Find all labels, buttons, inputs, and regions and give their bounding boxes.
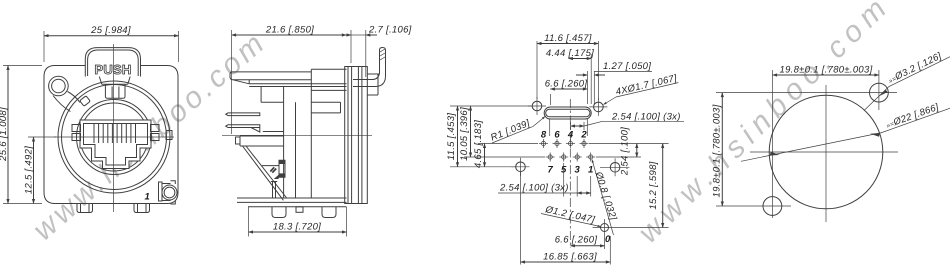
dim 6.6 bottom — [555, 235, 605, 246]
svg-text:6.6 [.260]: 6.6 [.260] — [545, 79, 588, 90]
svg-text:10.05 [.396]: 10.05 [.396] — [459, 107, 470, 161]
latch tab left — [72, 125, 81, 132]
body ring 4 — [80, 103, 148, 171]
vertical ext top-right circle — [878, 70, 880, 110]
horizontal centerline through small top-right circle — [716, 92, 897, 94]
dim 2.54 top right — [571, 112, 685, 131]
key bump — [80, 96, 91, 106]
svg-text:2.54 [.100]: 2.54 [.100] — [620, 127, 631, 176]
foot left — [77, 204, 93, 213]
dim 11.6 — [537, 33, 598, 100]
svg-text:12.5 [.492]: 12.5 [.492] — [24, 146, 35, 194]
svg-text:1: 1 — [145, 192, 150, 203]
dim 2.7 top — [340, 25, 412, 78]
dim 25 top — [44, 25, 179, 62]
svg-text:2.54 [.100] (3x): 2.54 [.100] (3x) — [611, 112, 681, 123]
svg-text:4.65 [.183]: 4.65 [.183] — [473, 120, 484, 168]
svg-text:6.6 [.260]: 6.6 [.260] — [555, 235, 598, 246]
body ring 3 — [77, 100, 152, 175]
dim 2.54 right vertical — [589, 127, 669, 176]
dim 19.8 left — [712, 93, 723, 206]
svg-text:4.44 [.175]: 4.44 [.175] — [546, 48, 594, 59]
label 4xO1.7 — [604, 73, 679, 105]
svg-text:6: 6 — [554, 130, 560, 141]
foot right — [322, 207, 336, 218]
dim 1.27 — [576, 61, 652, 104]
svg-text:18.3 [.720]: 18.3 [.720] — [273, 222, 321, 233]
latch tab right — [151, 125, 160, 132]
centerline vertical — [113, 44, 115, 212]
svg-text:R1 [.039]: R1 [.039] — [489, 118, 531, 144]
hole top-right — [589, 98, 607, 116]
O22 leader diagonal — [741, 98, 950, 161]
mounting hole top-left — [52, 79, 66, 93]
svg-text:1.27 [.050]: 1.27 [.050] — [603, 61, 651, 72]
svg-text:1: 1 — [588, 165, 593, 176]
main vertical edge — [283, 87, 285, 199]
big circle O22 — [769, 95, 883, 209]
push tab neck — [99, 77, 130, 85]
wedge diagonal — [243, 146, 284, 200]
slot side stubs — [549, 119, 551, 136]
svg-text:2.7 [.106]: 2.7 [.106] — [368, 25, 412, 36]
pin numbers bottom 7531 — [548, 165, 594, 176]
big circle centerlines — [825, 85, 827, 222]
watermark 1 — [27, 25, 274, 248]
svg-text:16.85 [.663]: 16.85 [.663] — [543, 252, 597, 263]
label R1 — [488, 117, 545, 144]
pin numbers top 8642 — [541, 130, 588, 141]
label O0.8 — [592, 160, 619, 236]
svg-text:»=Ø3.2 [.126]: »=Ø3.2 [.126] — [886, 51, 943, 86]
svg-text:19.8±0.1 [.780±.003]: 19.8±0.1 [.780±.003] — [712, 104, 723, 197]
push tab inner — [88, 50, 139, 76]
small circle top-right — [870, 83, 889, 102]
centerline — [222, 134, 372, 136]
dim 2.54 bottom left — [498, 163, 591, 197]
lobe arm top-left — [53, 92, 80, 112]
foot right — [134, 204, 150, 213]
pins top row — [539, 139, 589, 148]
dim 12.5 left — [24, 137, 57, 204]
front stub on axis — [236, 136, 284, 146]
svg-text:4: 4 — [567, 130, 574, 141]
pcb legs down — [271, 182, 277, 198]
hole bottom (1.2) — [601, 219, 609, 249]
slot outer — [544, 107, 591, 119]
body circle outer — [58, 81, 170, 193]
mounting bracket bottom-right — [159, 182, 163, 201]
svg-text:Ø1.2 [.047]: Ø1.2 [.047] — [543, 204, 596, 226]
dim 4.44 — [546, 48, 594, 104]
dim 25.6 left — [0, 66, 42, 204]
dim 11.5 left — [446, 106, 458, 167]
bottom plate lines — [237, 197, 347, 199]
svg-text:25.6 [1.008]: 25.6 [1.008] — [0, 107, 9, 162]
hole mid-right — [600, 158, 629, 176]
svg-text:25 [.984]: 25 [.984] — [90, 25, 131, 36]
keying square — [166, 131, 172, 140]
dim 19.8 top — [773, 65, 879, 76]
contact pin lower — [226, 125, 260, 132]
body circle 2 — [62, 85, 167, 190]
rj45 inner step — [84, 124, 148, 166]
svg-text:11.5 [.453]: 11.5 [.453] — [446, 113, 457, 161]
dim 16.85 bottom — [521, 172, 611, 265]
watermark 2 — [632, 0, 898, 250]
top bar — [230, 72, 311, 84]
svg-text:21.6 [.850]: 21.6 [.850] — [265, 25, 314, 36]
small circle bottom-left — [763, 197, 782, 216]
center nub — [296, 207, 303, 213]
dim 15.2 right — [593, 144, 669, 228]
centerline vertical dashed — [569, 99, 571, 248]
dim 21.6 top — [232, 25, 347, 135]
svg-text:Ø0.8 [.032]: Ø0.8 [.032] — [592, 170, 618, 222]
push hook side — [353, 48, 386, 87]
svg-text:2: 2 — [580, 130, 587, 141]
mounting hole bottom-right — [164, 187, 175, 198]
hole top-left — [528, 97, 546, 115]
slot inner — [546, 109, 590, 116]
left dims ext lines — [450, 105, 531, 107]
dim 18.3 bottom — [249, 207, 347, 237]
body top block — [311, 69, 346, 198]
push latch block — [105, 84, 125, 98]
dim 10.05 left — [459, 106, 471, 161]
svg-text:2.54 [.100] (3x): 2.54 [.100] (3x) — [499, 183, 569, 194]
horizontal centerline bottom-left circle — [716, 205, 791, 207]
rj45 contact comb — [94, 124, 136, 144]
svg-text:19.8±0.1 [.780±.003]: 19.8±0.1 [.780±.003] — [779, 65, 872, 76]
hook grip hatch — [380, 49, 385, 60]
svg-text:PUSH: PUSH — [95, 62, 132, 77]
svg-text:3: 3 — [575, 165, 581, 176]
hole mid-left — [512, 158, 530, 176]
svg-text:4XØ1.7 [.067]: 4XØ1.7 [.067] — [615, 73, 678, 98]
svg-text:8: 8 — [541, 130, 547, 141]
rj45 jack outline — [80, 120, 151, 169]
svg-text:»=Ø22 [.866]: »=Ø22 [.866] — [885, 102, 941, 131]
dim 6.6 top — [545, 79, 588, 106]
flange outline — [44, 66, 178, 204]
flange plate — [345, 67, 368, 204]
dim 4.65 left — [473, 120, 485, 168]
O3.2 leader — [864, 47, 950, 110]
mounting lobe bottom-right — [162, 185, 177, 200]
second bar — [249, 80, 346, 87]
vertical ext through bottom-left circle — [772, 70, 774, 218]
push tab — [85, 48, 140, 77]
pins bottom row — [546, 153, 596, 162]
foot left — [272, 207, 286, 218]
label O1.2 — [541, 204, 601, 227]
contact pin upper — [226, 113, 260, 116]
body mid lines — [260, 87, 262, 103]
centerline horizontal — [54, 136, 174, 138]
nose block behind panel — [368, 74, 380, 95]
latch lever detail — [262, 160, 285, 179]
svg-text:11.6 [.457]: 11.6 [.457] — [544, 33, 592, 44]
svg-text:15.2 [.598]: 15.2 [.598] — [648, 161, 659, 209]
svg-text:7: 7 — [548, 165, 554, 176]
mounting lobe top-left — [49, 76, 69, 96]
svg-text:5: 5 — [561, 165, 567, 176]
